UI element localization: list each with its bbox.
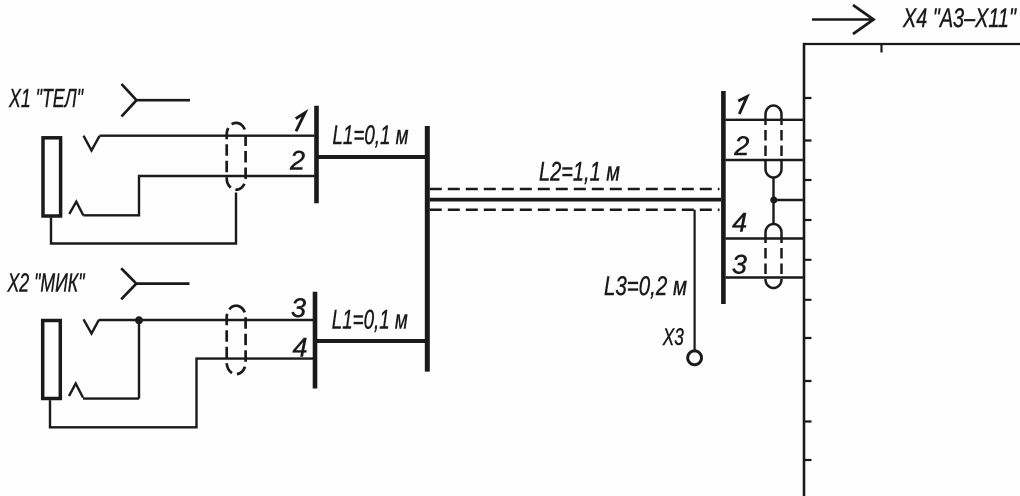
svg-text:X3: X3	[662, 324, 684, 351]
junction bar (cable splice)	[425, 126, 430, 372]
terminal X3 circle	[688, 351, 702, 365]
shield link wire	[772, 178, 774, 224]
socket symbol X2	[121, 268, 189, 299]
arrow to X4	[812, 18, 872, 21]
X1 tip contact	[84, 136, 100, 151]
svg-text:4: 4	[292, 333, 307, 363]
wire pin 1 right	[726, 119, 804, 121]
wire X2 tip to pin 3	[99, 319, 313, 321]
wire X1 ring to pin 2	[83, 176, 314, 215]
ticks left edge	[804, 98, 812, 460]
pin 1 label right	[738, 97, 747, 114]
junction dot X2	[135, 316, 143, 324]
cable L1 top	[318, 155, 427, 159]
shield screen right upper	[766, 106, 782, 178]
svg-text:2: 2	[289, 145, 305, 175]
svg-text:3: 3	[732, 250, 747, 280]
tick top edge	[880, 44, 882, 53]
shield screen right lower	[766, 224, 782, 288]
connector X2 jack body	[43, 321, 61, 399]
X2 tip contact	[84, 319, 100, 333]
wire L3 shield tap	[693, 210, 695, 350]
wire pin 4 right	[726, 237, 804, 239]
connector bar pins 3-4	[313, 292, 318, 389]
wire X1 tip to pin 1	[100, 134, 315, 136]
svg-text:2: 2	[733, 131, 749, 161]
svg-text:L2=1,1 м: L2=1,1 м	[539, 157, 620, 187]
cable L2 shield upper dashed	[430, 188, 720, 191]
cable L2 shield lower dashed	[430, 208, 720, 211]
X1 ring contact	[69, 202, 83, 216]
svg-text:L1=0,1 м: L1=0,1 м	[332, 305, 408, 335]
svg-text:X1 "ТЕЛ": X1 "ТЕЛ"	[8, 83, 84, 113]
svg-text:L1=0,1 м: L1=0,1 м	[333, 120, 409, 150]
shield screen X2 cable	[227, 306, 246, 374]
socket symbol X1	[122, 84, 191, 117]
wire shield to X4	[774, 199, 805, 201]
wire pin 3 right	[726, 276, 804, 278]
svg-text:3: 3	[291, 293, 306, 323]
connector bar pins 1-2	[314, 106, 319, 204]
wire X2 ring to tip junction	[83, 320, 139, 398]
X2 ring contact	[69, 384, 83, 398]
shield screen X1 cable	[227, 123, 246, 190]
cable L1 bottom	[317, 339, 427, 343]
svg-text:4: 4	[732, 207, 747, 237]
cable L2 core	[430, 198, 721, 202]
wire pin 2 right	[726, 159, 804, 161]
device X4 block top edge	[803, 43, 1020, 45]
pin 1 label left	[296, 113, 305, 132]
svg-text:X2 "МИК": X2 "МИК"	[7, 268, 86, 298]
connector bar right	[721, 91, 726, 304]
wire X1 sleeve to shield	[51, 193, 236, 244]
junction dot shield	[770, 196, 777, 203]
svg-text:L3=0,2 м: L3=0,2 м	[604, 271, 687, 301]
wire X2 sleeve to pin 4	[50, 359, 313, 428]
device X4 block left edge	[803, 43, 806, 496]
svg-text:X4 "А3–Х11": X4 "А3–Х11"	[902, 3, 1017, 33]
connector X1 jack body	[43, 138, 61, 216]
